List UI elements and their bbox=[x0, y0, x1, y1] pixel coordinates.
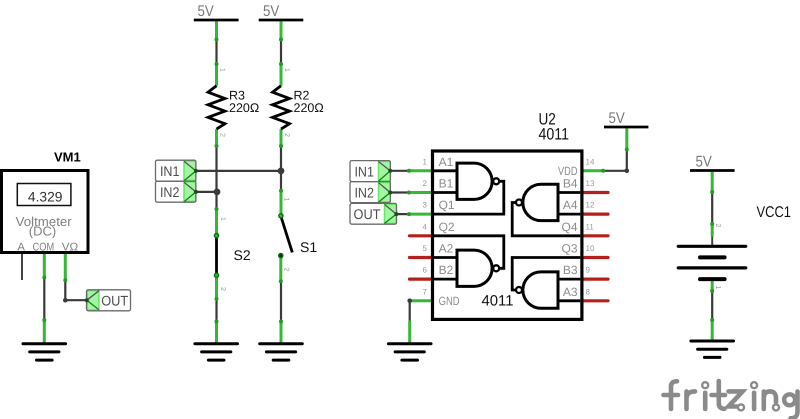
svg-text:4011: 4011 bbox=[539, 126, 570, 144]
svg-text:A4: A4 bbox=[563, 198, 578, 212]
svg-text:IN1: IN1 bbox=[160, 163, 180, 179]
svg-text:9: 9 bbox=[586, 266, 591, 275]
svg-text:1: 1 bbox=[283, 68, 290, 72]
svg-text:A1: A1 bbox=[439, 155, 454, 169]
svg-text:VΩ: VΩ bbox=[62, 242, 79, 254]
svg-text:VCC1: VCC1 bbox=[757, 204, 792, 221]
svg-text:B2: B2 bbox=[439, 263, 454, 277]
svg-text:A2: A2 bbox=[439, 242, 454, 256]
svg-text:12: 12 bbox=[586, 201, 595, 210]
svg-text:14: 14 bbox=[586, 157, 595, 166]
svg-text:S1: S1 bbox=[300, 239, 317, 255]
svg-text:IN2: IN2 bbox=[160, 184, 180, 200]
svg-text:A: A bbox=[17, 242, 25, 254]
svg-text:2: 2 bbox=[219, 287, 226, 291]
svg-text:5: 5 bbox=[423, 244, 428, 253]
svg-text:GND: GND bbox=[439, 294, 460, 308]
svg-text:Q1: Q1 bbox=[439, 198, 455, 212]
svg-text:B3: B3 bbox=[563, 263, 578, 277]
svg-text:S2: S2 bbox=[234, 247, 251, 263]
svg-text:8: 8 bbox=[586, 287, 591, 296]
svg-text:4.329: 4.329 bbox=[28, 190, 63, 205]
svg-text:1: 1 bbox=[714, 286, 721, 290]
svg-text:5V: 5V bbox=[609, 110, 626, 127]
svg-text:OUT: OUT bbox=[101, 292, 128, 308]
svg-text:5V: 5V bbox=[198, 3, 215, 20]
svg-text:OUT: OUT bbox=[354, 206, 381, 222]
svg-text:1: 1 bbox=[219, 68, 226, 72]
svg-text:B4: B4 bbox=[563, 177, 578, 191]
svg-text:1: 1 bbox=[283, 198, 290, 202]
svg-text:1: 1 bbox=[219, 217, 226, 221]
svg-text:13: 13 bbox=[586, 179, 595, 188]
svg-text:COM: COM bbox=[33, 242, 55, 254]
svg-text:Q4: Q4 bbox=[561, 220, 577, 234]
svg-text:A3: A3 bbox=[563, 285, 578, 299]
svg-text:1: 1 bbox=[423, 157, 428, 166]
svg-text:5V: 5V bbox=[696, 154, 713, 171]
svg-text:220Ω: 220Ω bbox=[294, 101, 324, 115]
svg-text:2: 2 bbox=[714, 224, 721, 228]
svg-text:VM1: VM1 bbox=[54, 150, 81, 165]
svg-text:2: 2 bbox=[219, 133, 226, 137]
svg-text:10: 10 bbox=[586, 244, 595, 253]
svg-text:11: 11 bbox=[586, 222, 595, 231]
svg-text:2: 2 bbox=[283, 133, 290, 137]
svg-text:IN1: IN1 bbox=[354, 163, 374, 179]
svg-text:IN2: IN2 bbox=[354, 184, 374, 200]
svg-text:5V: 5V bbox=[263, 3, 280, 20]
svg-text:220Ω: 220Ω bbox=[229, 101, 259, 115]
svg-text:4: 4 bbox=[423, 222, 428, 231]
svg-text:2: 2 bbox=[423, 179, 428, 188]
svg-text:Q2: Q2 bbox=[439, 220, 455, 234]
svg-text:Q3: Q3 bbox=[561, 242, 577, 256]
svg-text:B1: B1 bbox=[439, 177, 454, 191]
svg-text:6: 6 bbox=[423, 266, 428, 275]
svg-text:(DC): (DC) bbox=[29, 224, 56, 239]
svg-text:4011: 4011 bbox=[482, 293, 514, 310]
svg-text:2: 2 bbox=[283, 268, 290, 272]
svg-text:3: 3 bbox=[423, 201, 428, 210]
svg-text:7: 7 bbox=[423, 287, 428, 296]
